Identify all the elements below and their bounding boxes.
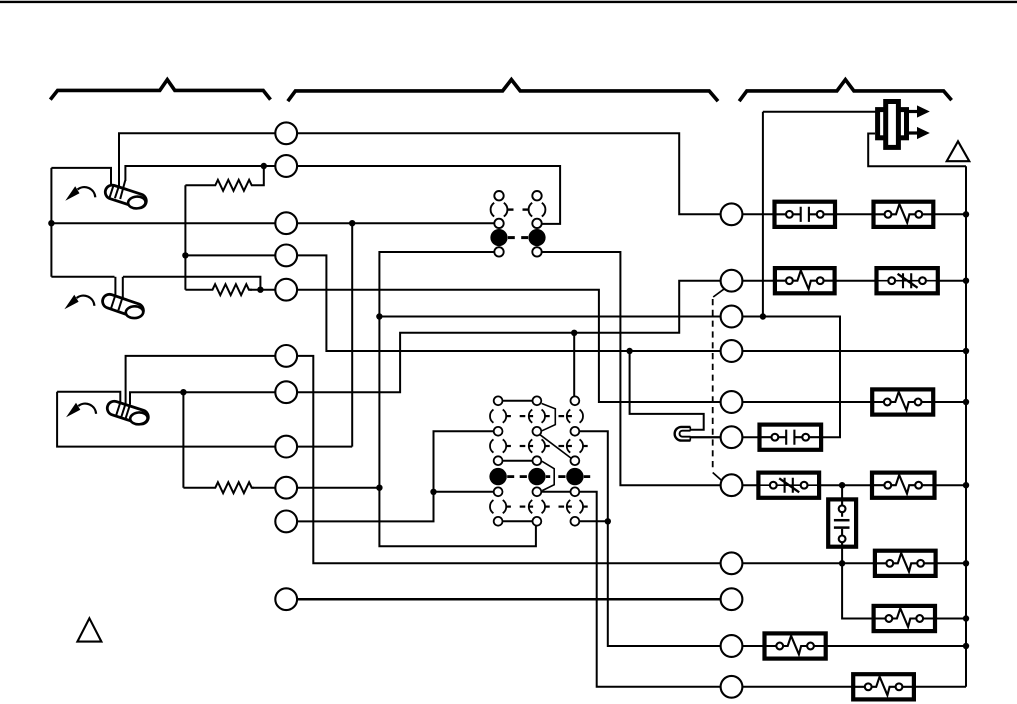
connector J2 col C socket (dashed) y446 [567, 439, 583, 452]
relay contact K5 (overload element) [872, 389, 933, 414]
thermostat T2 (mercury bulb) [101, 292, 146, 319]
junction R3 row branch [376, 313, 382, 319]
wire: terminal L5 row to terminal R5 row to bus [250, 290, 966, 402]
relay contact K6 (gap contact) [760, 425, 822, 450]
wire: connector J2 pin C5 stub [575, 520, 608, 522]
wire: transformer feed [763, 111, 877, 113]
wire: capacitor box to relay K9 row to bus [842, 536, 966, 619]
resistor R1 [185, 166, 263, 191]
terminal L7 [275, 381, 297, 403]
connector J2 col A socket (dashed) y506 [490, 500, 506, 513]
terminal R2 [721, 270, 743, 292]
mechanical linkage (dashed) [712, 299, 714, 471]
wire: enclosure T3 left and bottom edge to L8 [57, 392, 352, 447]
terminal L2 [275, 155, 297, 177]
resistor R3 [183, 482, 254, 493]
terminal R11 [721, 676, 743, 698]
connector J1 pin B1 [532, 191, 541, 200]
terminal L3 [275, 212, 297, 234]
junction on L2 row [261, 163, 267, 169]
wire: R4 branch down to jumper clip [630, 351, 704, 430]
connector J2 col B plug (filled) [528, 468, 545, 485]
junction transformer drop at R3 [760, 313, 766, 319]
junction resistor rail L4 [182, 252, 188, 258]
terminal L10 [275, 511, 297, 533]
terminal R4 [721, 340, 743, 362]
relay contact K8 (overload element) [872, 473, 935, 498]
wire: enclosure T3 top edge left segment [57, 392, 120, 404]
terminal L6 [275, 345, 297, 367]
terminal R6 [721, 426, 743, 448]
connector J2 col B socket (dashed) y416 [529, 409, 545, 422]
wire: branch down to connector J2 pin C1 [573, 333, 575, 401]
wire: T1 electrode to terminal L1 to terminal R1 row [119, 133, 966, 214]
connector J2 pin B3 [533, 456, 542, 465]
connector J2 pin B2 [533, 427, 542, 436]
terminal R8 [721, 552, 743, 574]
resistor R2 [185, 284, 252, 295]
wire: terminal L4 over to terminal R4 row to bus [185, 255, 966, 351]
connector J2 col C socket (dashed) y506 [567, 500, 583, 513]
connector J2 col A socket (dashed) y416 [490, 409, 506, 422]
brace: terminal board section [288, 80, 718, 102]
bus tap R8 [963, 560, 969, 566]
connector J1 pin A2 [494, 219, 503, 228]
bus tap R5 [963, 399, 969, 405]
wire: right supply bus [965, 166, 967, 687]
connector J1 pin A1 [494, 191, 503, 200]
wire: connector J2 pin C4 down to terminal R11 row [575, 492, 966, 687]
brace: control box section [739, 80, 951, 102]
rotation arrow T1 [78, 187, 96, 197]
connector J2 pin C2 [571, 427, 580, 436]
connector J2 pin C1 [571, 396, 580, 405]
junction left rail / L3 [48, 220, 54, 226]
wire: connector J1 pin A3 down to connector J2 pin B5 [379, 252, 536, 546]
relay contact K1 (gap contact) [775, 202, 836, 227]
wire: terminal L6 down to terminal R8 row to bus [126, 356, 966, 563]
wire: connector J2 col B bypass jumper top [542, 404, 556, 431]
connector J2 col C socket (dashed) y416 [567, 409, 583, 422]
bus tap R10 [963, 643, 969, 649]
bus tap R4 [963, 348, 969, 354]
connector J1 tick marks [508, 208, 514, 210]
wire: terminal L7 row up-over to terminal R2 row to bus [130, 281, 966, 405]
connector J2 tick marks [506, 415, 511, 417]
terminal L11 [275, 588, 297, 610]
wire: enclosure T2 top edge right [123, 277, 260, 290]
terminal R3 [721, 306, 743, 328]
transformer quick-connect plug [878, 110, 907, 138]
junction L3 row branch [349, 220, 355, 226]
connector J2 pin B1 [533, 396, 542, 405]
junction R4 row branch [626, 348, 632, 354]
wire: connector J2 col B bypass jumper bottom [542, 461, 554, 490]
switch lever at terminal R7 [713, 473, 723, 482]
relay contact K12 (overload element) [853, 674, 914, 699]
wire: enclosure T1 top edge [51, 168, 111, 186]
wire: T2 electrode lead a [114, 277, 116, 297]
thermostat T1 (mercury bulb) [103, 183, 148, 209]
connector J2 pin B4 [533, 487, 542, 496]
switch lever at terminal R2 [713, 289, 724, 297]
wire: connector J1 pin B3 to terminal R7 row to bus [537, 252, 966, 485]
wire: resistor R3 to junction [252, 487, 379, 489]
wire: connector J2 pins A5-B5 link [498, 520, 537, 522]
wire: transformer return to bus [868, 134, 966, 167]
terminal L9 [275, 477, 297, 499]
terminal R1 [721, 203, 743, 225]
junction crossover drop [571, 330, 577, 336]
wire: connector J2 pins A1-B1 link [498, 400, 537, 402]
terminal L8 [275, 436, 297, 458]
relay contact K3 (overload element) [775, 268, 835, 293]
wire: connector J2 B2 to C3 crossover [539, 434, 573, 459]
note triangle 2 (bottom left) [77, 618, 101, 641]
relay contact K11 (overload element) [765, 633, 826, 658]
relay contact K7 (crossed contact) [758, 473, 819, 498]
terminal R9 [721, 588, 743, 610]
junction capacitor box bottom [839, 560, 845, 566]
wire: resistor ladder left rail [184, 185, 186, 289]
connector J2 pin C5 [571, 517, 580, 526]
terminal L1 [275, 122, 297, 144]
wire: terminal L11 to terminal R9 [286, 598, 731, 601]
terminal L5 [275, 279, 297, 301]
connector J2 col B socket (dashed) y506 [529, 500, 545, 513]
terminal R10 [721, 635, 743, 657]
connector J2 pin A5 [494, 517, 503, 526]
thermostat T3 (mercury bulb) [105, 399, 150, 425]
page top border line [0, 1, 1017, 3]
wire: capacitor box top link [841, 485, 843, 512]
junction L10 riser [430, 489, 436, 495]
junction T3 enclosure / resistor R3 [180, 389, 186, 395]
wire: terminal L10 to connector J2 pins B2 B4 [286, 431, 498, 521]
junction J2 C5 stub [605, 518, 611, 524]
connector J1 pin B3 [532, 247, 541, 256]
connector J2 col C plug (filled) [566, 468, 583, 485]
bus tap R1 [963, 211, 969, 217]
connector J1 col B plug (filled) [528, 229, 545, 246]
connector J2 col A plug (filled) [489, 468, 506, 485]
junction T2 enclosure to L5 row [257, 287, 263, 293]
terminal L4 [275, 245, 297, 267]
connector J2 pin A2 [494, 427, 503, 436]
note triangle 1 (top right) [947, 141, 970, 161]
bus tap K9 [963, 615, 969, 621]
connector J2 pin C4 [571, 487, 580, 496]
terminal R7 [721, 474, 743, 496]
relay contact K2 (overload element) [874, 202, 934, 227]
wire: branch L3 down to L8 row [351, 223, 353, 446]
wire: T1 electrode to terminal L2 to connector J1 pin A2 [125, 166, 560, 224]
wire: connector J2 pin C2 down to terminal R10 row to bus [575, 431, 966, 646]
connector J1 col A plug (filled) [490, 229, 507, 246]
connector J2 col A socket (dashed) y446 [490, 439, 506, 452]
wire: transformer drop to terminal R3 row [762, 112, 764, 317]
rotation arrow T3 [78, 404, 96, 414]
wire: connector J2 pins B4-C4 link [537, 491, 575, 493]
bus tap R2 [963, 278, 969, 284]
junction capacitor box top [839, 482, 845, 488]
connector J1 pin B2 [532, 219, 541, 228]
capacitor C1 (vertical box) [828, 499, 856, 546]
wire: terminal R3 row to relay K6 and jumper clip [379, 317, 840, 438]
connector J1 col B socket (dashed) [529, 203, 546, 217]
wire: junction to connector J2 pin A4 [434, 491, 499, 493]
connector J2 pin A3 [494, 456, 503, 465]
brace: thermostats section [50, 80, 270, 100]
jumper clip receptacle [675, 427, 691, 441]
relay contact K4 (crossed contact) [877, 268, 938, 293]
wire: enclosure T2 top edge left [51, 276, 114, 278]
connector J2 pin A4 [494, 487, 503, 496]
terminal R5 [721, 391, 743, 413]
connector J1 pin A3 [494, 247, 503, 256]
connector J1 col A socket (dashed) [491, 203, 508, 217]
connector J2 pin A1 [494, 396, 503, 405]
wire: resistor R3 left feed [182, 392, 184, 488]
wire: left rail T1-T2 [50, 168, 52, 277]
junction L9 row [376, 485, 382, 491]
relay contact K10 (overload element) [874, 606, 935, 631]
connector J2 pin C3 [571, 456, 580, 465]
connector J2 pin B5 [533, 517, 542, 526]
wire: T2 electrode lead b [122, 277, 124, 299]
bus tap R7 [963, 482, 969, 488]
relay contact K9 (overload element) [875, 551, 936, 576]
rotation arrow T2 [77, 296, 95, 306]
wire: net L3 row to connector J1 pin A1 [51, 222, 499, 224]
wire: connector J2 pins A3-B3 link [498, 460, 537, 462]
connector J2 col B socket (dashed) y446 [529, 439, 545, 452]
